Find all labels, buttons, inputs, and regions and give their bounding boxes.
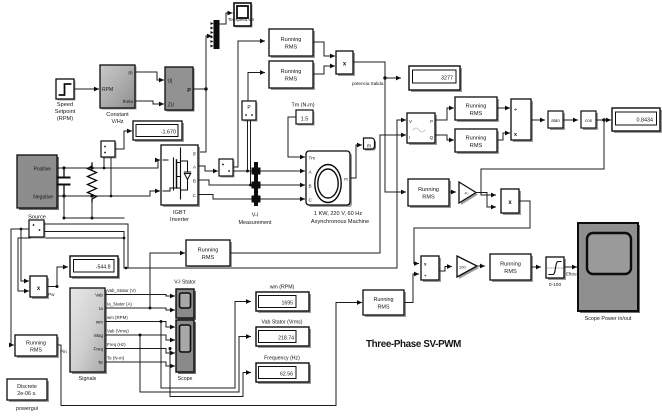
node Pw branch [56,285,59,288]
wire P output with junction [193,88,206,90]
scope Power in/out [578,223,640,322]
wire to product X4 input1 [21,229,29,281]
scope V-I Stator [174,280,196,321]
display -1.670 [133,121,184,142]
subsystem SV-PWM generator U/ZU to P [165,67,195,112]
wire mux to scope speed [220,13,233,24]
wire DC sense to PQ input V [128,120,406,268]
svg-text:Speed: Speed [57,102,73,108]
svg-text:Running: Running [198,248,219,254]
svg-text:Freq: Freq [94,347,104,352]
resistor DC link [88,163,97,202]
svg-text:0-100: 0-100 [549,282,562,288]
wire gain 100 to Running RMS 7 [477,265,485,267]
wire cos branch down to product X5 [481,120,604,195]
wire phase A measurement to machine [233,170,305,172]
node Freq branch [169,347,172,350]
node positive-resistor [90,166,93,169]
svg-text:Running: Running [466,104,487,110]
current measurement on phase A [219,159,235,178]
svg-text:wm (RPM): wm (RPM) [270,285,295,291]
svg-text:RMS: RMS [202,255,215,261]
svg-text:m: m [367,144,371,150]
node sense join [125,267,128,270]
svg-text:RPM: RPM [102,87,113,93]
gain K triangle [459,182,478,205]
svg-text:1 KW, 220 V, 60 Hz: 1 KW, 220 V, 60 Hz [314,211,363,217]
svg-text:Te (N-m): Te (N-m) [107,356,125,361]
product X5 [501,189,521,215]
svg-text:m: m [128,71,132,77]
wire X5 output down to divide D6 [414,201,530,264]
svg-text:Running: Running [500,262,521,268]
wire M2 input plus [103,157,105,168]
svg-text:Vab_Stator (V): Vab_Stator (V) [107,288,136,293]
cos block [581,111,598,130]
node phase A tap [246,170,249,173]
wire Tm constant to machine [288,117,305,157]
svg-text:IGBT: IGBT [173,210,187,216]
wire PQ P output to Running RMS 3 [435,108,454,120]
svg-text:Tm: Tm [309,156,316,161]
svg-text:wm: wm [96,320,103,325]
svg-text:RMS: RMS [504,269,517,275]
node Ia branch [149,307,152,310]
svg-text:Running: Running [26,341,46,347]
Running RMS 5 [408,179,451,208]
capacitor DC link [59,168,70,196]
wire phase A tap up to Running RMS 1 [233,41,265,167]
wire Freq to scope [105,349,175,354]
saturation 0-100 [546,257,566,288]
divide D6 [421,256,441,282]
svg-text:Ter speed ion: Ter speed ion [228,17,255,22]
wire X4 Pw output to display [47,267,68,287]
svg-text:Freq (Hz): Freq (Hz) [107,342,126,347]
Running RMS 2 [269,61,315,90]
svg-text:Vab (Vrms): Vab (Vrms) [107,329,129,334]
svg-text:Scope Power in/out: Scope Power in/out [585,316,632,322]
svg-text:Signals: Signals [79,376,97,382]
wire theta to ZU [135,101,164,104]
wire potencia Salida down to Running RMS 5 [385,78,406,192]
svg-text:2e-06 s.: 2e-06 s. [17,391,36,397]
svg-text:218.74: 218.74 [278,336,294,342]
svg-text:Asynchronous Machine: Asynchronous Machine [311,219,369,225]
svg-text:potencia Salida: potencia Salida [352,81,384,86]
wire Vab_Stator to scope [105,295,175,297]
svg-text:Q: Q [430,135,434,140]
powergui block [7,379,49,412]
svg-text:Positive: Positive [33,167,51,173]
wire B1 left branch [21,228,29,230]
scope speed [228,3,255,28]
wire m to SU [135,72,164,80]
wire step to Constant V/Hz [74,88,99,90]
Running RMS 6 [363,290,406,317]
wire cos to display with junction [596,119,611,121]
svg-text:V-I Stator: V-I Stator [174,280,196,286]
wire divide to atan [531,119,545,121]
svg-text:Inverter: Inverter [170,217,189,223]
subsystem Signals [70,288,107,382]
wire saturation to power scope [564,266,577,268]
display Frequency Hz 62.56 [256,356,311,385]
wire P block output to Running RMS 2 [248,73,265,102]
subsystem Constant V/Hz [100,65,137,125]
IGBT inverter block [161,145,200,223]
wire Vab branch up to RMS8 [150,253,185,308]
power PQ measurement block [407,113,437,145]
svg-text:RMS: RMS [30,348,42,354]
wire positive rail [57,160,160,168]
display 3277 [409,66,462,92]
wire RMS4 to divide [497,133,510,140]
svg-text:U|: U| [168,79,173,85]
svg-text:Running: Running [373,297,393,303]
svg-text:RMS: RMS [470,111,483,117]
svg-text:Running: Running [466,136,487,142]
svg-text:theta: theta [123,99,134,104]
svg-text:cos: cos [585,118,593,123]
Running RMS 8 mid [186,240,232,268]
scope multi-signal [176,320,196,382]
svg-text:x: x [424,262,427,267]
wire gain K to product X5 [476,193,496,208]
wire M2 to display -1.670 [115,131,132,149]
wire negative rail down to return bus [63,196,65,218]
wire RMS8 to PQ input I [230,135,406,253]
svg-text:Scope: Scope [178,376,193,382]
svg-text:g: g [193,151,196,156]
svg-text:x: x [514,132,517,138]
wire wm RPM to scope [105,322,175,328]
constant Tm 1.5 [291,103,314,126]
transistor MOSFET symbol inside inverter [180,148,182,199]
svg-text:V: V [409,119,412,124]
diode symbol inside inverter [181,161,191,190]
wire to product X4 input2 [18,238,29,291]
svg-text:Running: Running [281,37,302,43]
wire P down to IGBT gate [201,89,207,152]
wire branch wm to display 1695 [161,302,251,389]
svg-text:wm (RPM): wm (RPM) [107,315,128,320]
svg-text:Mag: Mag [94,333,103,338]
wire RMS6 up to divide D6 input2 [404,274,419,303]
svg-text:Setpoint: Setpoint [55,109,76,115]
display 0.8434 [612,108,662,133]
wire Vab Vrms to scope [105,335,175,340]
svg-text:P: P [430,119,433,124]
wire RMS5 to gain K [449,191,456,193]
DC source block [17,155,59,221]
svg-text:-1.670: -1.670 [161,130,176,136]
wire P up to mux [206,36,212,89]
wire P block taps to bus [247,120,249,171]
wire atan to cos [563,119,578,121]
svg-text:V-I: V-I [252,213,259,219]
wire machine m output to tag [350,145,362,178]
svg-text:100: 100 [459,265,466,270]
Running RMS 4 [455,129,499,154]
node P junction [204,87,207,90]
svg-text:1.5: 1.5 [301,117,309,123]
wire B1 out upper [44,223,128,225]
voltage measurement M2 [101,141,117,159]
svg-text:RMS: RMS [422,195,435,201]
svg-text:1695: 1695 [281,301,293,307]
svg-text:RMS: RMS [378,305,390,311]
node negative-capacitor [62,194,65,197]
svg-text:RMS: RMS [470,143,483,149]
power measurement block P above bus [242,101,258,122]
svg-text:B: B [193,179,196,184]
asynchronous machine block [306,151,369,225]
svg-text:Vab: Vab [95,293,103,298]
node Vab branch [139,334,142,337]
gain 100 triangle [457,256,479,279]
node negative-resistor [90,194,93,197]
svg-text:Tm (N-m): Tm (N-m) [291,103,314,109]
display wm RPM 1695 [256,285,311,314]
node phase B tap [249,184,252,187]
wire negative rail [57,191,160,196]
node capacitor return tie [63,217,66,220]
wire RMS1 to product X3 [313,42,335,56]
svg-text:Running: Running [281,69,302,75]
node B1 branch [20,228,23,231]
current sense B1 [29,220,46,239]
atan block [548,111,565,130]
svg-text:Negative: Negative [33,195,53,201]
svg-text:Te: Te [98,360,103,365]
wire phase C inverter to machine [198,195,305,200]
svg-text:Vab Stator (Vrms): Vab Stator (Vrms) [262,320,303,326]
step source Speed Setpoint (RPM) [55,79,76,122]
wire PQ Q output to Running RMS 4 [435,135,454,140]
svg-text:3277: 3277 [441,76,453,82]
svg-text:Frequency (Hz): Frequency (Hz) [264,356,300,362]
wire divide D6 to gain 100 [439,267,452,272]
svg-text:I: I [409,135,410,140]
wire return bus horizontal [64,217,124,219]
svg-text:Running: Running [418,187,439,193]
wire X3 output potencia Salida [353,62,385,78]
svg-text:B: B [309,184,312,189]
svg-text:Three-Phase SV-PWM: Three-Phase SV-PWM [366,339,461,350]
product X4 DC power [30,276,49,299]
wire junction to display 3277 [385,77,401,79]
svg-text:-544.8: -544.8 [96,265,111,271]
wire phase B inverter to machine [198,180,305,185]
wire B1 out lower [44,232,128,269]
wire long return under inverter [18,237,124,239]
wire branch Freq to display 62.56 [170,349,251,397]
Running RMS 1 [269,29,315,58]
node resistor return tie [91,217,94,220]
display -544.8 [70,256,120,279]
svg-text:Pw: Pw [48,292,55,297]
svg-text:powergui: powergui [16,406,38,412]
wire RMS3 to divide [497,107,510,109]
node cos branch [602,118,605,121]
svg-text:RMS: RMS [285,77,298,83]
product X3 [336,51,355,76]
wire phase A inverter to bus [198,166,218,171]
Running RMS Pin [15,335,59,358]
svg-text:-K-: -K- [464,192,470,196]
svg-text:0.8434: 0.8434 [637,118,654,124]
wire Ia_Stator to scope [105,308,175,310]
wire Te to scope [105,362,175,366]
svg-text:Ia_Stator (A): Ia_Stator (A) [107,302,132,307]
svg-text:Discrete: Discrete [17,384,37,390]
wire RMS2 to product X3 [313,66,335,74]
svg-text:Constant: Constant [106,112,129,118]
svg-text:ZU: ZU [168,103,175,109]
wire M2 input minus [110,157,112,196]
wire to Running RMS Pin input [11,229,21,345]
divide block Q over P [511,99,533,142]
svg-text:÷: ÷ [514,107,517,113]
goto tag m [364,138,377,151]
Running RMS 7 [490,254,533,282]
wire resistor bottom to return bus [91,202,93,218]
svg-text:Measurement: Measurement [239,220,272,226]
svg-text:P: P [187,88,191,94]
display Vab Stator Vrms 218.74 [256,320,311,349]
svg-text:m: m [344,177,348,182]
node wm branch [160,320,163,323]
svg-text:Ia: Ia [99,306,103,311]
svg-text:RMS: RMS [285,45,298,51]
svg-text:62.56: 62.56 [280,372,293,378]
svg-text:V/Hz: V/Hz [111,119,123,125]
node potencia Salida [383,76,386,79]
svg-text:(RPM): (RPM) [57,116,73,122]
wire Pin long bottom run to RMS6 [57,303,362,406]
V-I measurement bus bar [239,162,272,226]
svg-text:atan: atan [551,118,560,123]
Running RMS 3 [455,97,499,122]
node return branch [123,237,126,240]
node positive-capacitor [62,166,65,169]
wire RMS7 to saturation [531,266,541,268]
wire branch Vab to display 218.74 [140,335,251,392]
mux [211,20,220,49]
